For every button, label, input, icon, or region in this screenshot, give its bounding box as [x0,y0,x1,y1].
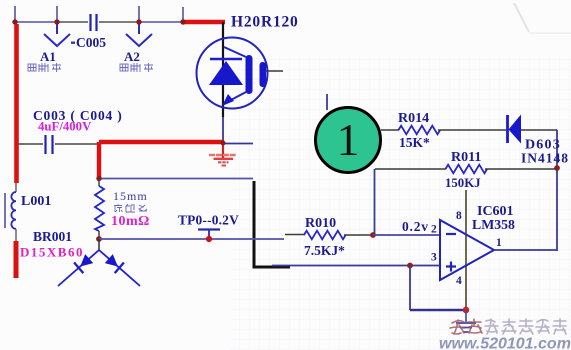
svg-text:4uF/400V: 4uF/400V [38,120,92,134]
svg-text:A1: A1 [40,49,56,64]
svg-text:LM358: LM358 [472,217,515,232]
svg-text:R014: R014 [398,111,429,126]
svg-text:IN4148: IN4148 [521,151,569,166]
svg-text:L001: L001 [21,194,51,209]
svg-text:150KJ: 150KJ [445,176,481,190]
svg-text:8: 8 [456,210,462,222]
svg-text:0.2v: 0.2v [402,219,429,234]
svg-text:3: 3 [431,252,437,264]
svg-text:1: 1 [337,115,360,165]
svg-text:C005: C005 [76,35,106,50]
svg-text:BR001: BR001 [33,229,72,244]
svg-text:D15XB60: D15XB60 [20,245,84,260]
svg-text:2: 2 [431,224,437,236]
svg-text:www.520101.com: www.520101.com [439,336,571,350]
svg-text:1: 1 [496,237,502,249]
svg-text:7.5KJ*: 7.5KJ* [304,243,345,258]
svg-text:R011: R011 [451,150,481,165]
svg-text:4: 4 [456,275,462,287]
svg-text:TP0--0.2V: TP0--0.2V [178,213,239,228]
svg-text:15K*: 15K* [399,135,430,150]
svg-text:R010: R010 [305,216,336,231]
svg-text:H20R120: H20R120 [231,14,299,31]
svg-text:A2: A2 [124,49,140,64]
svg-text:10mΩ: 10mΩ [111,214,150,229]
svg-text:15mm: 15mm [113,189,148,203]
